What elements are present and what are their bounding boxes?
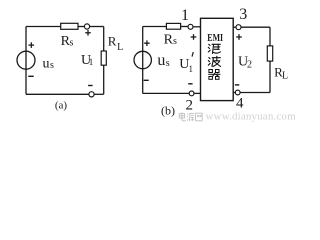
svg-text:1: 1	[181, 7, 189, 24]
wire bottom right (a)	[94, 93, 104, 95]
terminal node 4	[235, 90, 240, 95]
wire node 4 to EMI box	[233, 92, 235, 94]
label - at node 2	[188, 83, 192, 85]
wire top mid (b)	[181, 26, 188, 28]
wire node1 to EMI box	[193, 26, 201, 28]
svg-text:www.dianyuan.com: www.dianyuan.com	[206, 111, 297, 123]
terminal node output+ (a)	[84, 24, 89, 29]
label + at output (a)	[85, 30, 91, 36]
terminal node output- (a)	[89, 92, 94, 97]
svg-text:L: L	[282, 71, 288, 82]
wire right vertical lower (b)	[269, 61, 271, 92]
svg-text:s: s	[50, 60, 54, 71]
wire right vertical lower (a)	[103, 65, 105, 94]
resistor Rs (b)	[166, 23, 180, 29]
svg-text:L: L	[117, 42, 123, 53]
svg-text:3: 3	[239, 6, 247, 23]
wire bottom left (b)	[143, 92, 190, 94]
terminal node 2	[189, 91, 194, 96]
svg-text:u: u	[43, 56, 50, 71]
label + of source (a)	[29, 42, 35, 48]
wire bottom left (a)	[26, 93, 89, 95]
voltage source us (b)	[134, 51, 151, 68]
svg-text:(b): (b)	[161, 104, 175, 118]
svg-text:1: 1	[189, 64, 194, 74]
svg-text:s: s	[70, 38, 74, 49]
svg-text:s: s	[166, 58, 170, 69]
svg-text:EMI: EMI	[207, 32, 223, 44]
resistor Rs (a)	[61, 23, 78, 29]
label CJK qi (filter char 3)	[208, 70, 220, 80]
svg-text:4: 4	[236, 96, 244, 112]
terminal node 1	[188, 24, 193, 29]
wire right vertical upper (b)	[269, 27, 271, 46]
wire top mid (a)	[78, 26, 84, 28]
terminal node 3	[236, 25, 241, 30]
wire top right (b)	[241, 26, 270, 28]
label - at output (a)	[88, 85, 93, 87]
EMI filter box U1	[201, 18, 234, 100]
svg-text:(a): (a)	[55, 100, 68, 112]
svg-text:u: u	[157, 52, 165, 69]
label CJK bo (filter char 2)	[208, 56, 220, 66]
wire top right (a)	[90, 26, 104, 28]
label - of source (a)	[28, 75, 33, 77]
wire left vertical (b)	[142, 27, 144, 94]
svg-text:2: 2	[247, 60, 252, 71]
wire top left (a)	[26, 26, 61, 28]
svg-text:1: 1	[89, 57, 94, 67]
watermark dianyuan logo text	[179, 112, 202, 121]
svg-text:2: 2	[185, 98, 193, 114]
resistor RL (a)	[101, 51, 106, 65]
label - at node 4	[235, 84, 239, 86]
wire EMI box to node 3	[233, 26, 236, 28]
wire top left (b)	[143, 26, 167, 28]
label + of source (b)	[144, 40, 150, 46]
resistor RL (b)	[267, 46, 272, 61]
label + at node 1	[191, 34, 197, 40]
label + at node 3	[236, 34, 242, 40]
voltage source us (a)	[17, 51, 35, 69]
wire right vertical upper (a)	[103, 27, 105, 52]
label CJK lv (filter char 1)	[208, 44, 220, 53]
wire EMI box to node 2	[194, 92, 201, 94]
label - of source (b)	[144, 79, 149, 81]
svg-text:s: s	[173, 36, 177, 47]
svg-text:R: R	[108, 34, 117, 49]
wire bottom right (b)	[240, 92, 270, 94]
wire left vertical (a)	[25, 27, 27, 95]
